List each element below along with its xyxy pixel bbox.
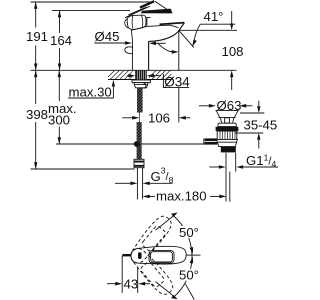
plan view handle inner rect [149,251,174,263]
dimension max30 leader [68,87,113,98]
dimension max180 line [150,195,155,197]
faucet shoulder line [131,25,178,30]
supply hose upper braid [137,88,143,113]
supply hose lower braid [137,122,142,159]
41 degree arc [158,44,173,52]
drain seal band [216,127,239,131]
faucet lever paddle [141,9,173,14]
dimension 398 line [35,70,37,169]
counter hatching left [105,70,139,81]
svg-text:Ø34: Ø34 [164,74,190,89]
faucet lever knob [127,15,146,29]
wire counter slab bottom line [108,79,172,81]
dimension 191 line [35,2,37,70]
plan view rod stub [122,254,130,256]
drain flange sides [216,111,238,118]
shank rod hook [143,83,145,88]
dimension O34 arrows [127,75,129,77]
svg-text:191: 191 [26,29,48,44]
svg-text:41°: 41° [204,9,224,24]
dimension 43 extension lines [122,256,138,294]
svg-text:398: 398 [26,107,48,122]
G3/8 connector nut [134,159,144,167]
50 degree axis line upper [156,215,176,231]
faucet pop-up rod knob [125,47,133,54]
wire hose end level line (398 bottom) [31,168,135,170]
wire spout tip vertical projection line [178,30,180,122]
dimension G1 1/4 leader [209,166,219,168]
dashed handle rotated up [126,213,175,267]
drain bottom band [221,147,236,153]
drain shoulder [218,123,237,126]
drain threaded body [217,131,237,139]
dimension 108 line lower [231,77,233,90]
dimension 43 line [107,283,115,285]
label 50deg lower [178,269,200,281]
dimension 35-45 ticks [235,113,264,133]
50 degree horizontal tick [187,254,201,256]
faucet spout underside curve [149,32,179,42]
svg-text:108: 108 [222,44,244,59]
shank mounting nut [134,83,148,88]
dimension O45 leader and arrows [94,42,125,44]
wire reference line top of lever (191 top) [31,1,151,3]
wire reference line top of body (164 top) [52,9,130,11]
O34 label bracket [163,74,189,88]
svg-text:106: 106 [148,110,170,125]
faucet spout tip face [178,23,184,32]
hose junction dot [134,141,140,147]
svg-text:164: 164 [50,33,72,48]
plan view handle outline [131,246,186,264]
svg-text:max.180: max.180 [156,188,207,203]
drain lock nut [217,139,238,146]
wire counter top reference line [31,69,237,71]
dimension 164 line [59,10,61,70]
counter hatching right [147,70,181,81]
faucet body right edge [148,41,150,70]
50 degree arc [173,215,192,298]
svg-text:Ø45: Ø45 [95,29,120,44]
dimension 108 line upper [231,11,233,24]
50 degree lower leader segment [185,284,194,300]
svg-text:50°: 50° [179,225,199,240]
faucet lever blade [125,6,150,18]
41 degree leader [200,23,235,25]
hose break centerline [138,113,140,123]
wire spout tip level line (108 top ref) [179,29,237,31]
dimension max300 line [58,70,60,144]
svg-text:Ø63: Ø63 [217,98,242,113]
faucet head step [147,17,151,26]
drain flange top [215,110,238,112]
svg-text:35-45: 35-45 [244,117,278,132]
plan view handle slot [138,252,142,259]
drain cap center [225,118,230,123]
svg-text:43: 43 [124,277,139,292]
50 degree axis line lower [156,282,176,298]
dimension 106 line [122,117,132,119]
50 degree arc arrowheads [190,247,194,254]
faucet spout top edge [160,23,185,25]
G3/8 connector pipe [137,168,142,200]
svg-text:max.30: max.30 [69,85,112,100]
drain tailpipe [226,153,236,202]
dimension O63 arrows [199,105,209,107]
41 degree construction: diagonal from spout tip [179,30,194,47]
wire hose connection level line (max300 bottom) [56,143,205,145]
drain side pin [205,138,218,144]
svg-text:300: 300 [48,113,70,128]
shank washer [132,80,150,83]
faucet threaded shank [135,70,147,80]
label 50deg upper [178,226,200,238]
dashed handle rotated down [127,244,176,298]
faucet body left edge [131,30,132,70]
svg-text:50°: 50° [179,268,199,283]
dimension G3/8 leader [115,182,131,184]
drain neck [220,118,233,124]
dimension 35-45 arrows [258,101,260,107]
